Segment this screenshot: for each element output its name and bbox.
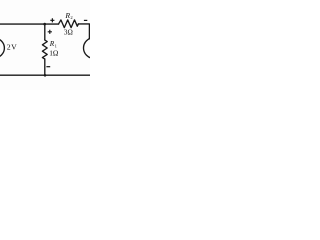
svg-text:2V: 2V — [7, 42, 17, 51]
minus sign (R1 bottom polarity) — [46, 66, 50, 68]
minus sign (R2 right polarity) — [84, 19, 87, 21]
svg-text:1Ω: 1Ω — [49, 49, 59, 58]
svg-text:3Ω: 3Ω — [64, 29, 73, 37]
wire bottom — [0, 74, 90, 76]
wire middle branch bottom — [44, 59, 46, 75]
resistor R2 3ohm — [59, 20, 79, 28]
wire top left — [0, 23, 59, 25]
wire top right — [78, 24, 89, 39]
plus sign (R1 top polarity) — [48, 30, 52, 34]
voltage source right (cut off) — [84, 38, 105, 59]
voltage source left 2V (cut off) — [0, 38, 4, 57]
resistor R1 1ohm — [42, 40, 47, 59]
plus sign (R2 left polarity) — [50, 18, 54, 22]
wire middle branch top — [44, 24, 46, 40]
junction node top — [43, 23, 46, 26]
junction node bottom — [44, 74, 47, 77]
